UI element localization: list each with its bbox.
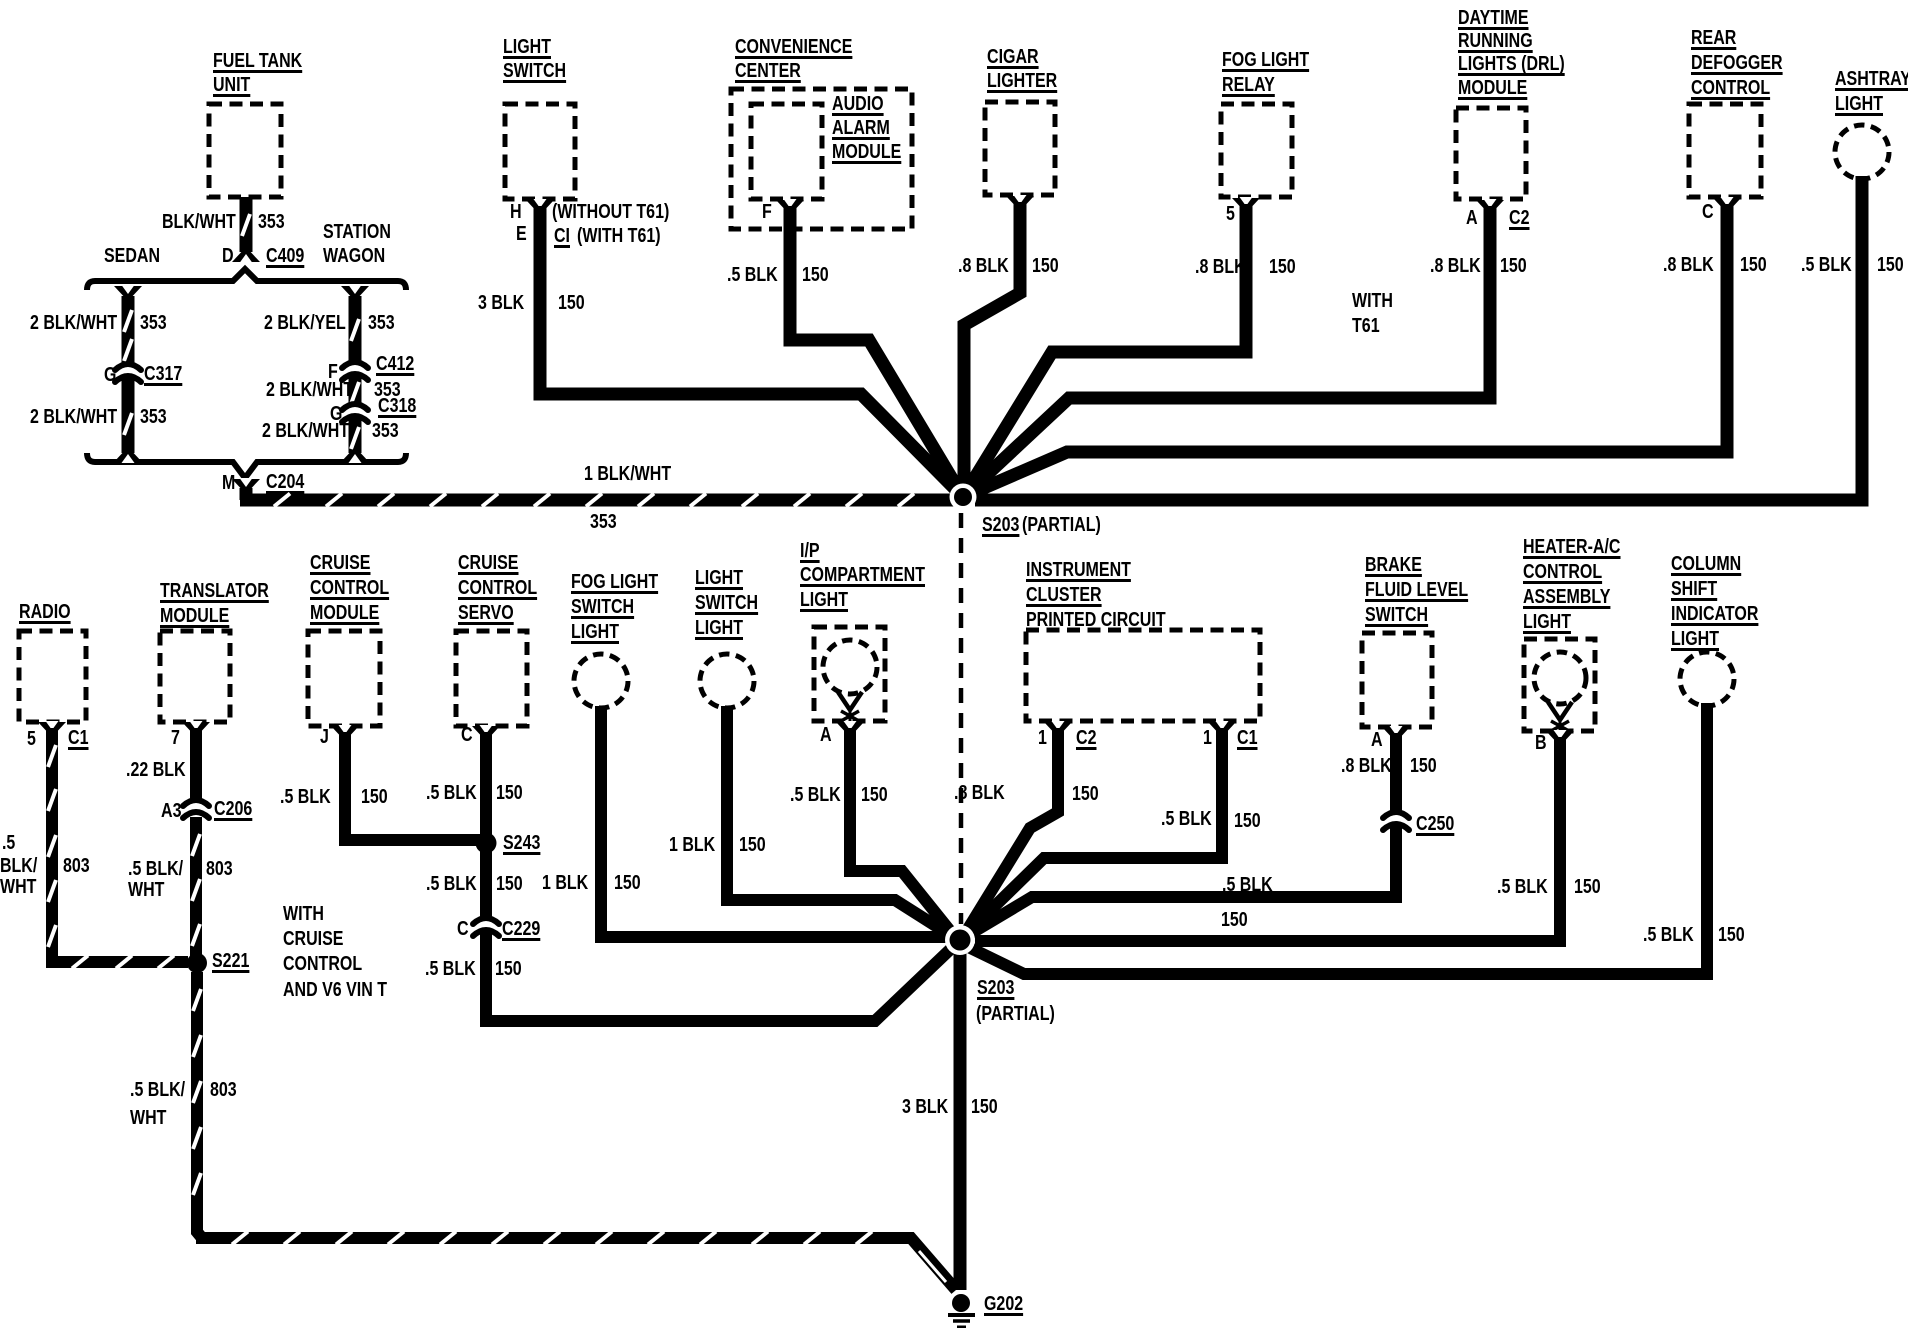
cruise control module	[308, 552, 389, 726]
svg-text:LIGHT: LIGHT	[1523, 611, 1571, 633]
svg-text:LIGHTER: LIGHTER	[987, 70, 1058, 92]
svg-text:C2: C2	[1076, 727, 1097, 749]
svg-text:E: E	[516, 223, 527, 245]
svg-text:SERVO: SERVO	[458, 602, 514, 624]
svg-text:353: 353	[368, 312, 395, 334]
svg-text:5: 5	[27, 728, 36, 750]
svg-text:A: A	[1466, 207, 1478, 229]
svg-text:STATION: STATION	[323, 221, 391, 243]
wire .8 BLK 150 cigar lighter to S203	[958, 195, 1059, 490]
svg-text:LIGHT: LIGHT	[695, 567, 743, 589]
svg-text:.5 BLK: .5 BLK	[790, 784, 841, 806]
svg-text:.5 BLK: .5 BLK	[1643, 924, 1694, 946]
svg-text:LIGHT: LIGHT	[1835, 93, 1883, 115]
svg-text:ASHTRAY: ASHTRAY	[1835, 68, 1908, 90]
svg-text:C318: C318	[378, 395, 416, 417]
svg-text:FUEL TANK: FUEL TANK	[213, 50, 303, 72]
svg-text:.8 BLK: .8 BLK	[954, 782, 1005, 804]
svg-text:S203: S203	[982, 514, 1019, 536]
svg-text:AUDIO: AUDIO	[832, 93, 884, 115]
splice S203 upper (partial)	[950, 484, 1101, 537]
connector C412 pin F	[328, 353, 414, 383]
svg-text:150: 150	[1072, 783, 1099, 805]
svg-text:CONTROL: CONTROL	[1691, 77, 1770, 99]
svg-text:J: J	[320, 726, 329, 748]
svg-text:F: F	[328, 361, 338, 383]
fog light switch light lamp	[571, 571, 658, 708]
daytime running lights DRL module	[1456, 7, 1565, 199]
svg-text:150: 150	[1718, 924, 1745, 946]
svg-text:353: 353	[258, 211, 285, 233]
wire .8 BLK 150 fog light relay pin 5 to S203	[963, 197, 1296, 497]
dashed bus S203 partial link	[959, 513, 964, 924]
connector C250	[1383, 812, 1454, 835]
column shift indicator light lamp	[1671, 553, 1759, 706]
svg-text:353: 353	[140, 406, 167, 428]
svg-text:A: A	[1371, 729, 1383, 751]
svg-text:(WITHOUT T61): (WITHOUT T61)	[552, 201, 669, 223]
svg-text:(PARTIAL): (PARTIAL)	[976, 1003, 1055, 1025]
svg-text:TRANSLATOR: TRANSLATOR	[160, 580, 269, 602]
rear defogger control	[1689, 27, 1783, 197]
svg-text:SWITCH: SWITCH	[571, 596, 634, 618]
svg-text:ALARM: ALARM	[832, 117, 890, 139]
svg-text:INDICATOR: INDICATOR	[1671, 603, 1759, 625]
svg-text:C409: C409	[266, 245, 304, 267]
svg-text:3 BLK: 3 BLK	[902, 1096, 949, 1118]
svg-text:G: G	[104, 364, 116, 386]
cigar lighter	[985, 46, 1058, 195]
svg-text:HEATER-A/C: HEATER-A/C	[1523, 536, 1621, 558]
radio	[19, 601, 86, 722]
svg-text:.5 BLK: .5 BLK	[426, 782, 477, 804]
svg-text:150: 150	[496, 782, 523, 804]
wire .5 BLK 150 heater A/C light pin B to S203	[975, 730, 1601, 941]
svg-text:H: H	[510, 201, 522, 223]
svg-text:2 BLK/WHT: 2 BLK/WHT	[30, 312, 117, 334]
wire .8 BLK 150 instrument cluster pin 1 C2 to S203	[954, 721, 1099, 937]
svg-text:D: D	[222, 245, 234, 267]
wire 1 BLK 150 fog light switch light to S203	[542, 706, 950, 937]
light switch S-LS	[503, 36, 575, 199]
svg-text:1: 1	[1038, 727, 1047, 749]
svg-text:CONTROL: CONTROL	[310, 577, 389, 599]
svg-text:353: 353	[590, 511, 617, 533]
svg-text:150: 150	[614, 872, 641, 894]
svg-text:C: C	[461, 724, 473, 746]
I/P compartment light lamp	[800, 540, 925, 722]
svg-text:A: A	[820, 724, 832, 746]
svg-text:LIGHT: LIGHT	[503, 36, 551, 58]
wire .8 BLK 150 DRL module pin A C2 to S203	[963, 199, 1530, 497]
svg-text:MODULE: MODULE	[832, 141, 901, 163]
svg-text:3 BLK: 3 BLK	[478, 292, 525, 314]
svg-text:1 BLK/WHT: 1 BLK/WHT	[584, 463, 671, 485]
connector C204 pin M	[222, 471, 305, 494]
svg-text:ASSEMBLY: ASSEMBLY	[1523, 586, 1611, 608]
svg-text:LIGHT: LIGHT	[1671, 628, 1719, 650]
translator module	[160, 580, 269, 722]
svg-text:CONTROL: CONTROL	[1523, 561, 1602, 583]
svg-text:S243: S243	[503, 832, 540, 854]
svg-text:SEDAN: SEDAN	[104, 245, 160, 267]
svg-text:FLUID LEVEL: FLUID LEVEL	[1365, 579, 1468, 601]
note with cruise control and V6 VIN T	[283, 903, 387, 1001]
svg-text:WAGON: WAGON	[323, 245, 385, 267]
connector C317 pin G	[104, 363, 182, 386]
svg-text:803: 803	[210, 1079, 237, 1101]
svg-text:(PARTIAL): (PARTIAL)	[1022, 514, 1101, 536]
svg-text:803: 803	[63, 855, 90, 877]
svg-text:150: 150	[495, 958, 522, 980]
svg-text:2 BLK/WHT: 2 BLK/WHT	[266, 379, 353, 401]
svg-text:A3: A3	[161, 800, 182, 822]
connector C318 pin G	[330, 395, 416, 425]
svg-text:C206: C206	[214, 798, 252, 820]
svg-text:MODULE: MODULE	[1458, 77, 1527, 99]
svg-text:150: 150	[1269, 256, 1296, 278]
instrument cluster printed circuit	[1026, 559, 1260, 721]
svg-text:.8 BLK: .8 BLK	[958, 255, 1009, 277]
svg-text:150: 150	[558, 292, 585, 314]
svg-text:DAYTIME: DAYTIME	[1458, 7, 1529, 29]
svg-text:.5 BLK: .5 BLK	[1222, 874, 1273, 896]
svg-text:C1: C1	[68, 727, 89, 749]
svg-text:1 BLK: 1 BLK	[542, 872, 589, 894]
svg-text:MODULE: MODULE	[310, 602, 379, 624]
wire 3 BLK 150 light switch to S203	[478, 199, 963, 497]
branch brace SEDAN / STATION WAGON	[87, 221, 406, 478]
svg-text:G: G	[330, 403, 342, 425]
svg-text:2 BLK/YEL: 2 BLK/YEL	[264, 312, 346, 334]
svg-text:.8 BLK: .8 BLK	[1341, 755, 1392, 777]
svg-text:SWITCH: SWITCH	[503, 60, 566, 82]
svg-text:COMPARTMENT: COMPARTMENT	[800, 564, 925, 586]
svg-text:1: 1	[1203, 727, 1212, 749]
svg-text:UNIT: UNIT	[213, 74, 250, 96]
svg-text:150: 150	[861, 784, 888, 806]
svg-text:BRAKE: BRAKE	[1365, 554, 1422, 576]
svg-text:C204: C204	[266, 471, 305, 493]
wire .5 BLK 150 ashtray light to S203	[975, 176, 1904, 500]
svg-text:.5 BLK: .5 BLK	[1161, 808, 1212, 830]
svg-text:RUNNING: RUNNING	[1458, 30, 1533, 52]
svg-text:SHIFT: SHIFT	[1671, 578, 1717, 600]
svg-text:WITH: WITH	[283, 903, 324, 925]
brake fluid level switch	[1362, 554, 1468, 727]
wire 3 BLK 150 S203 to G202	[902, 951, 998, 1290]
svg-text:C412: C412	[376, 353, 414, 375]
svg-text:.22 BLK: .22 BLK	[126, 759, 186, 781]
svg-text:WHT: WHT	[130, 1107, 166, 1129]
svg-text:.5 BLK: .5 BLK	[426, 873, 477, 895]
svg-text:CRUISE: CRUISE	[458, 552, 519, 574]
wire .8 BLK 150 brake fluid level switch pin A to S203	[960, 726, 1437, 940]
svg-text:I/P: I/P	[800, 540, 820, 562]
wire .5 BLK/WHT 803 S221 to G202	[130, 972, 956, 1290]
svg-text:WHT: WHT	[0, 876, 36, 898]
svg-text:.5 BLK: .5 BLK	[1497, 876, 1548, 898]
svg-text:.8 BLK: .8 BLK	[1430, 255, 1481, 277]
svg-text:SWITCH: SWITCH	[695, 592, 758, 614]
svg-text:150: 150	[1410, 755, 1437, 777]
svg-text:.5 BLK: .5 BLK	[280, 786, 331, 808]
svg-text:CRUISE: CRUISE	[283, 928, 344, 950]
svg-text:AND V6 VIN T: AND V6 VIN T	[283, 979, 387, 1001]
svg-text:LIGHTS (DRL): LIGHTS (DRL)	[1458, 53, 1565, 75]
wire .5 BLK 150 cruise control servo pin C to S203	[425, 724, 958, 1021]
svg-text:.5: .5	[2, 832, 15, 854]
svg-text:BLK/: BLK/	[0, 855, 38, 877]
wire .5 BLK 150 cruise control module pin J to S243	[280, 725, 482, 840]
svg-text:CENTER: CENTER	[735, 60, 801, 82]
svg-text:F: F	[762, 201, 772, 223]
svg-text:150: 150	[1234, 810, 1261, 832]
wire 1 BLK 150 light switch light to S203	[669, 706, 958, 940]
svg-text:7: 7	[171, 727, 180, 749]
svg-text:150: 150	[802, 264, 829, 286]
svg-text:353: 353	[372, 420, 399, 442]
svg-text:S221: S221	[212, 950, 249, 972]
wire .5 BLK 150 column shift indicator light to S203	[958, 703, 1745, 974]
svg-text:DEFOGGER: DEFOGGER	[1691, 52, 1783, 74]
heater A/C control assembly light lamp	[1523, 536, 1621, 732]
svg-text:WHT: WHT	[128, 879, 164, 901]
svg-text:CONVENIENCE: CONVENIENCE	[735, 36, 852, 58]
svg-text:LIGHT: LIGHT	[571, 621, 619, 643]
svg-text:150: 150	[971, 1096, 998, 1118]
splice S221	[187, 950, 249, 973]
svg-text:MODULE: MODULE	[160, 605, 229, 627]
svg-text:CONTROL: CONTROL	[283, 953, 362, 975]
svg-text:1 BLK: 1 BLK	[669, 834, 716, 856]
svg-text:150: 150	[1032, 255, 1059, 277]
svg-text:FOG LIGHT: FOG LIGHT	[1222, 49, 1309, 71]
svg-text:CI: CI	[554, 225, 570, 247]
svg-text:150: 150	[361, 786, 388, 808]
svg-text:.8 BLK: .8 BLK	[1663, 254, 1714, 276]
wire 1 BLK/WHT 353 C204 to S203	[240, 463, 957, 533]
svg-text:BLK/WHT: BLK/WHT	[162, 211, 236, 233]
svg-text:T61: T61	[1352, 315, 1380, 337]
connector C409 pin D	[222, 245, 304, 267]
wire .5 BLK 150 I/P compartment light pin A to S203	[790, 721, 955, 937]
convenience center	[731, 36, 912, 229]
wire 2 BLK/WHT 353 sedan branch	[30, 285, 167, 463]
wire .5 BLK/WHT 803 radio pin 5 C1 to S221	[0, 721, 188, 969]
svg-text:.5 BLK: .5 BLK	[1801, 254, 1852, 276]
svg-text:.5 BLK: .5 BLK	[425, 958, 476, 980]
ground G202	[948, 1293, 1023, 1327]
svg-text:LIGHT: LIGHT	[800, 589, 848, 611]
svg-text:150: 150	[1740, 254, 1767, 276]
svg-text:C: C	[457, 918, 469, 940]
svg-text:150: 150	[1877, 254, 1904, 276]
wire .22 BLK translator pin 7 to C206	[126, 721, 210, 800]
svg-text:B: B	[1535, 732, 1547, 754]
fuel tank unit U-FT	[209, 50, 303, 197]
svg-text:CONTROL: CONTROL	[458, 577, 537, 599]
svg-text:150: 150	[1574, 876, 1601, 898]
svg-text:(WITH T61): (WITH T61)	[577, 225, 661, 247]
light switch light lamp	[695, 567, 758, 708]
svg-text:RELAY: RELAY	[1222, 74, 1275, 96]
splice S243	[476, 832, 541, 854]
svg-text:C: C	[1702, 201, 1714, 223]
svg-text:.8 BLK: .8 BLK	[1195, 256, 1246, 278]
svg-text:150: 150	[1500, 255, 1527, 277]
svg-text:.5 BLK: .5 BLK	[727, 264, 778, 286]
wire 2 BLK/YEL 353 station wagon branch	[262, 285, 401, 463]
wire .8 BLK 150 rear defogger pin C to S203	[963, 197, 1767, 497]
svg-text:G202: G202	[984, 1293, 1023, 1315]
svg-text:SWITCH: SWITCH	[1365, 604, 1428, 626]
svg-text:803: 803	[206, 858, 233, 880]
svg-text:RADIO: RADIO	[19, 601, 71, 623]
svg-text:150: 150	[496, 873, 523, 895]
svg-text:150: 150	[739, 834, 766, 856]
svg-text:S203: S203	[977, 977, 1014, 999]
svg-text:150: 150	[1221, 909, 1248, 931]
wire BLK/WHT 353 fuel tank unit to C409	[162, 197, 285, 263]
splice S203 lower (partial)	[945, 925, 1055, 1025]
wire .5 BLK 150 instrument cluster pin 1 C1 to S203	[960, 721, 1261, 940]
cruise control servo	[456, 552, 537, 726]
svg-text:CRUISE: CRUISE	[310, 552, 371, 574]
audio alarm module inside convenience center	[751, 93, 901, 199]
wire .5 BLK 150 audio alarm module pin F to S203	[727, 199, 963, 497]
svg-text:C2: C2	[1509, 207, 1530, 229]
svg-text:COLUMN: COLUMN	[1671, 553, 1741, 575]
svg-text:5: 5	[1226, 203, 1235, 225]
svg-text:353: 353	[140, 312, 167, 334]
svg-text:FOG LIGHT: FOG LIGHT	[571, 571, 658, 593]
connector C229 pin C	[457, 918, 540, 940]
svg-text:.5 BLK/: .5 BLK/	[128, 858, 183, 880]
svg-text:C229: C229	[502, 918, 540, 940]
svg-text:INSTRUMENT: INSTRUMENT	[1026, 559, 1131, 581]
svg-text:CLUSTER: CLUSTER	[1026, 584, 1102, 606]
svg-text:.5 BLK/: .5 BLK/	[130, 1079, 185, 1101]
svg-text:C1: C1	[1237, 727, 1258, 749]
svg-text:WITH: WITH	[1352, 290, 1393, 312]
ashtray light lamp	[1835, 68, 1908, 179]
svg-text:CIGAR: CIGAR	[987, 46, 1039, 68]
connector C206 pin A3	[161, 798, 252, 822]
svg-text:2 BLK/WHT: 2 BLK/WHT	[30, 406, 117, 428]
svg-text:C317: C317	[144, 363, 182, 385]
wire .5 BLK/WHT 803 C206 to S221	[128, 817, 233, 958]
svg-text:C250: C250	[1416, 813, 1454, 835]
svg-text:M: M	[222, 472, 235, 494]
fog light relay K-FL	[1221, 49, 1309, 197]
svg-text:LIGHT: LIGHT	[695, 617, 743, 639]
svg-text:REAR: REAR	[1691, 27, 1737, 49]
